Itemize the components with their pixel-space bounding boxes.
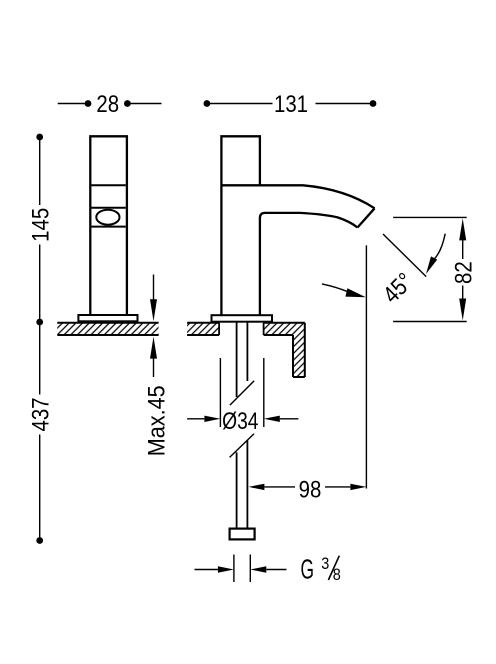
spout top edge [221, 185, 374, 208]
svg-text:G: G [301, 553, 314, 584]
countertop bottom line right (front view) [264, 334, 293, 336]
dimension 437: upper segment [39, 322, 41, 395]
pipe break slash lower [230, 434, 254, 458]
dimension G3/8: left extension line [233, 555, 235, 583]
45 degree leader line [322, 284, 348, 292]
dimension 82: upper segment [462, 239, 464, 260]
dimension 82: lower segment [462, 286, 464, 302]
dimension G3/8: right arrowhead [250, 566, 266, 572]
dimension G3/8: right segment [266, 569, 286, 571]
base flange (side view) [78, 315, 137, 321]
supply pipe right line lower [246, 441, 248, 529]
dimension 437: bottom dot [36, 537, 43, 544]
svg-text:131: 131 [274, 91, 308, 118]
dimension 82: down arrowhead [459, 299, 466, 321]
countertop top line (side view) [57, 322, 158, 324]
dimension 98: right segment [325, 486, 350, 488]
45 degree arc [434, 234, 446, 260]
svg-text:145: 145 [27, 208, 54, 242]
dimension G3/8: left segment [195, 569, 218, 571]
45 degree leader arrowhead [345, 288, 365, 297]
dimension 28: right dot [124, 100, 131, 107]
supply pipe right line upper [246, 322, 248, 381]
dimension 145: upper segment [39, 137, 41, 205]
countertop top line right (front view) [264, 322, 305, 324]
countertop leg right edge [304, 323, 306, 377]
dimension O34: left extension line [219, 358, 221, 427]
svg-text:82: 82 [450, 261, 477, 284]
side view divider line 1 [91, 184, 125, 186]
dimension 28: left dot [85, 100, 92, 107]
dimension 131: left dot [204, 100, 211, 107]
dimension G3/8: left arrowhead [218, 566, 234, 572]
dimension 131: left segment [207, 103, 273, 105]
dimension O34: left arrowhead [204, 416, 220, 422]
dimension 145/437: middle dot [36, 319, 43, 326]
dimension 98: left segment [264, 486, 295, 488]
mounting hole right wall [263, 323, 265, 335]
side view divider line 3 [91, 226, 125, 228]
countertop hatch (side view) [57, 323, 158, 335]
dimension 82: bottom reference line [393, 321, 467, 323]
svg-text:45°: 45° [378, 268, 419, 309]
dimension 437: lower segment [39, 435, 41, 541]
dimension O34: right segment [280, 418, 299, 420]
dimension G3/8: right extension line [249, 555, 251, 583]
countertop bottom line (side view) [57, 334, 158, 336]
countertop leg inner edge [292, 335, 294, 377]
side view handle ellipse [96, 210, 119, 225]
faucet body (side view) [90, 136, 127, 315]
svg-text:3: 3 [321, 555, 329, 573]
dimension 28: left segment [58, 103, 88, 105]
svg-text:437: 437 [27, 397, 54, 431]
dimension O34: left segment [187, 418, 204, 420]
spout bottom edge with fillet [260, 213, 358, 315]
svg-text:Ø34: Ø34 [222, 407, 258, 435]
45 degree reference diagonal [383, 234, 426, 277]
dimension 131: right segment [316, 103, 374, 105]
dimension 145: lower segment [39, 245, 41, 323]
45 degree arc arrowhead [426, 256, 437, 274]
pipe end connector [230, 529, 255, 540]
svg-text:28: 28 [96, 91, 119, 118]
dimension 28: right segment [127, 103, 161, 105]
dimension Max.45: down arrowhead [150, 299, 157, 321]
vertical reference line at spout tip [365, 245, 367, 488]
countertop hatch right part with leg (front view) [264, 323, 305, 377]
countertop bottom line left (front view) [187, 334, 219, 336]
supply pipe left line lower [236, 452, 238, 528]
countertop top line left (front view) [187, 322, 219, 324]
dimension O34: right extension line [263, 358, 265, 427]
supply pipe left line upper [236, 322, 238, 397]
pipe break slash upper [230, 381, 254, 405]
dimension 82: top reference line [393, 216, 467, 218]
dimension Max.45: upper segment [153, 275, 155, 301]
dimension Max.45: up arrowhead [150, 337, 157, 359]
dimension 98: left arrowhead [248, 484, 264, 490]
dimension 98: right arrowhead [350, 484, 366, 490]
dimension 131: right dot [370, 100, 377, 107]
mounting hole left wall [218, 323, 220, 335]
side view divider line 2 [91, 207, 125, 209]
dimension Max.45: lower segment [153, 358, 155, 378]
faucet body outline with spout (front view) [221, 136, 260, 315]
thread label fraction slash [328, 556, 339, 580]
svg-text:98: 98 [299, 476, 322, 503]
dimension O34: right arrowhead [264, 416, 280, 422]
svg-text:Max.45: Max.45 [143, 385, 170, 456]
countertop hatch left part (front view) [187, 323, 219, 335]
countertop leg bottom edge [293, 376, 305, 378]
base flange (front view) [212, 315, 273, 322]
dimension 145/437: top dot [36, 134, 43, 141]
dimension 82: up arrowhead [459, 218, 466, 240]
svg-text:8: 8 [333, 566, 341, 584]
spout outlet face [358, 208, 375, 227]
